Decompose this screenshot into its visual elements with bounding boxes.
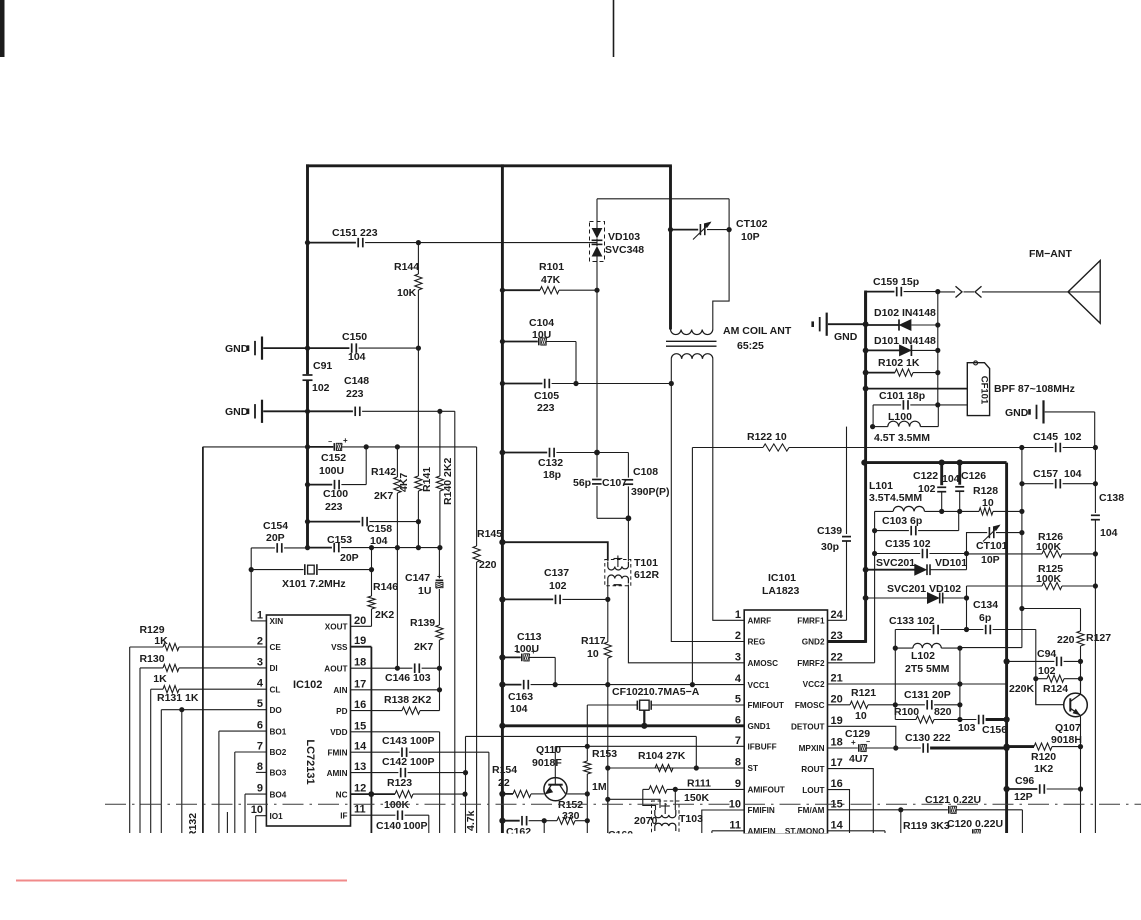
wire main bus left vertical — [306, 164, 309, 374]
trimmer capacitor CT101 10P — [967, 533, 988, 554]
svg-text:1U: 1U — [418, 585, 431, 597]
node CT102 left — [668, 227, 673, 232]
resistor R142 2K7 — [394, 477, 401, 493]
svg-text:C91: C91 — [313, 360, 332, 372]
svg-text:AMOSC: AMOSC — [748, 659, 779, 668]
capacitor C145 102 — [1022, 447, 1054, 449]
svg-text:4K7: 4K7 — [398, 473, 410, 492]
svg-text:T103: T103 — [679, 813, 703, 825]
ground GND (C150 row) — [247, 345, 250, 351]
svg-text:3: 3 — [257, 656, 263, 668]
svg-text:R104 27K: R104 27K — [638, 750, 686, 762]
svg-text:R131 1K: R131 1K — [157, 692, 199, 704]
svg-text:1K: 1K — [154, 635, 168, 647]
svg-text:7: 7 — [735, 735, 741, 747]
node C152/R142 junction — [395, 444, 400, 449]
svg-text:C163: C163 — [508, 691, 533, 703]
svg-text:10: 10 — [855, 710, 867, 722]
svg-text:5: 5 — [257, 698, 263, 710]
svg-text:IC101: IC101 — [768, 572, 796, 584]
ground GND (right) — [1028, 409, 1031, 415]
svg-text:AMIFOUT: AMIFOUT — [748, 786, 785, 795]
capacitor C146 103 (AOUT) — [351, 667, 413, 669]
svg-text:GND2: GND2 — [802, 638, 825, 647]
resistor R104 27K — [655, 764, 673, 771]
node R101 right — [594, 288, 599, 293]
wire C134 to R124 — [1035, 630, 1037, 705]
node C163/C113 junction — [553, 682, 558, 687]
svg-text:14: 14 — [831, 819, 844, 831]
svg-text:100K: 100K — [1036, 573, 1062, 585]
wire FMIFIN — [702, 810, 744, 833]
capacitor C121 0.22U electrolytic (FM/AM) — [828, 809, 948, 811]
wire ROUT — [828, 769, 874, 833]
svg-text:C105: C105 — [534, 390, 559, 402]
svg-text:IO1: IO1 — [270, 812, 284, 821]
svg-text:R139: R139 — [410, 617, 435, 629]
svg-text:AM COIL ANT: AM COIL ANT — [723, 325, 792, 337]
svg-text:C120 0.22U: C120 0.22U — [947, 818, 1003, 830]
svg-text:FMIN: FMIN — [327, 748, 347, 757]
svg-text:CF102: CF102 — [612, 686, 644, 698]
wire BO3 stub — [256, 771, 267, 773]
node L101/C126/C103 — [957, 509, 962, 514]
svg-text:C94: C94 — [1037, 648, 1056, 660]
node GND1 left — [499, 723, 505, 729]
svg-text:CT101: CT101 — [976, 540, 1008, 552]
wire to T103 primary left — [608, 799, 660, 808]
wire IO1 — [256, 815, 267, 817]
node L100 left — [870, 424, 875, 429]
node C131 right — [957, 702, 962, 707]
svg-text:22: 22 — [498, 777, 510, 789]
wire FMRF1 link to C139 — [828, 619, 847, 621]
svg-text:4: 4 — [257, 678, 264, 690]
svg-text:C159 15p: C159 15p — [873, 276, 919, 288]
svg-text:C139: C139 — [817, 525, 842, 537]
svg-text:104: 104 — [370, 535, 388, 547]
svg-text:R153: R153 — [592, 748, 617, 760]
ground GND (FM) — [811, 321, 814, 327]
svg-text:R145: R145 — [477, 528, 502, 540]
transformer T101 612R — [605, 560, 631, 586]
resistor R144 10K — [417, 243, 419, 274]
node crystal/R146 top — [369, 545, 374, 550]
wire R132 branch — [181, 710, 183, 833]
svg-text:R111: R111 — [687, 778, 711, 790]
node VCC2/L102-right — [957, 681, 962, 686]
node C137 right / T101 / R117 — [605, 597, 610, 602]
svg-text:220K: 220K — [1009, 683, 1035, 695]
svg-text:GND1: GND1 — [748, 722, 771, 731]
svg-text:AMRF: AMRF — [748, 617, 772, 626]
svg-text:2070: 2070 — [634, 815, 658, 827]
svg-text:C142 100P: C142 100P — [382, 756, 435, 768]
svg-text:10P: 10P — [981, 554, 1000, 566]
capacitor C143 100P (FMIN) — [351, 751, 400, 753]
node C130 bus — [1004, 745, 1010, 751]
svg-text:18: 18 — [831, 737, 843, 749]
svg-text:13: 13 — [354, 761, 366, 773]
node L101/C122 — [939, 509, 944, 514]
ground GND (C148 row) — [247, 409, 250, 415]
svg-text:LC72131: LC72131 — [304, 739, 316, 784]
wire VD103 top link — [597, 198, 729, 200]
wire ST/MONO — [828, 830, 886, 832]
node IFBUFF/R153 — [585, 744, 590, 749]
resistor R138 2K2 (PD) — [351, 710, 403, 712]
svg-text:GND: GND — [1005, 407, 1029, 419]
wire central bus vertical — [501, 164, 504, 833]
svg-text:9: 9 — [735, 778, 741, 790]
svg-text:R123: R123 — [387, 777, 412, 789]
node CT101 right — [1019, 530, 1024, 535]
resistor R154 22 — [499, 791, 505, 797]
wire BO2 — [235, 751, 267, 753]
wire crystal right leg / R146 — [371, 548, 373, 596]
svg-text:−: − — [866, 739, 870, 746]
svg-text:330: 330 — [562, 810, 580, 822]
svg-text:R119 3K3: R119 3K3 — [903, 820, 950, 832]
wire CT102 right leg — [713, 199, 729, 330]
node ST/IF-link — [694, 765, 699, 770]
wire XOUT lead — [351, 625, 372, 627]
svg-text:12: 12 — [354, 783, 366, 795]
svg-text:C126: C126 — [961, 470, 986, 482]
svg-text:R120: R120 — [1031, 751, 1056, 763]
svg-text:104: 104 — [1100, 527, 1118, 539]
svg-text:R117: R117 — [581, 635, 606, 647]
capacitor C132 18p — [502, 452, 547, 454]
capacitor C158 104 — [308, 521, 361, 523]
node VCC1 row / R117 — [605, 682, 610, 687]
svg-text:VDD: VDD — [330, 728, 347, 737]
svg-text:FMOSC: FMOSC — [795, 701, 825, 710]
wire IF buffer link row — [466, 735, 697, 737]
node C157 right — [1093, 481, 1098, 486]
capacitor C103 6p — [874, 511, 876, 662]
svg-text:C132: C132 — [538, 457, 563, 469]
svg-text:10P: 10P — [741, 231, 760, 243]
svg-text:104: 104 — [942, 473, 960, 485]
svg-text:BO3: BO3 — [270, 769, 287, 778]
node R152 right — [585, 818, 590, 823]
wire AM coil secondary right leg to AMRF — [713, 359, 744, 620]
resistor R126 100K — [967, 553, 1043, 555]
wire stub x227 — [226, 812, 228, 833]
wire DO row — [161, 709, 266, 711]
svg-text:10U: 10U — [532, 329, 551, 341]
filter CF102 10.7MA5-A — [587, 704, 637, 706]
svg-text:+: + — [851, 738, 856, 747]
node R120 right — [1078, 744, 1083, 749]
svg-text:C103 6p: C103 6p — [882, 515, 922, 527]
svg-text:220: 220 — [1057, 634, 1075, 646]
svg-text:22: 22 — [831, 651, 843, 663]
wire FMRF2 link — [828, 662, 875, 664]
svg-text:C157: C157 — [1033, 468, 1058, 480]
resistor R139 2K7 vertical — [436, 625, 443, 640]
capacitor C120 0.22U electrolytic — [972, 829, 974, 837]
capacitor C100 223 — [365, 447, 367, 485]
wire AMOSC branch — [627, 518, 629, 561]
svg-text:9018H: 9018H — [1051, 734, 1082, 746]
node R128 right — [1019, 509, 1024, 514]
node C94 right — [1078, 659, 1083, 664]
svg-text:10: 10 — [587, 648, 599, 660]
svg-text:C147: C147 — [405, 572, 430, 584]
svg-text:10: 10 — [251, 804, 263, 816]
svg-text:4: 4 — [735, 673, 742, 685]
resistor R101 47K — [502, 289, 540, 291]
node ST/x608 — [605, 765, 610, 770]
svg-text:X101 7.2MHz: X101 7.2MHz — [282, 578, 346, 590]
svg-text:L100: L100 — [888, 411, 912, 423]
svg-text:+: + — [531, 647, 536, 656]
svg-text:30p: 30p — [821, 541, 839, 553]
svg-text:C113: C113 — [517, 631, 542, 643]
capacitor C108 390P(P) — [597, 452, 628, 454]
antenna FM-ANT — [1068, 261, 1100, 324]
filter CF101 BPF 87-108MHz — [967, 363, 989, 416]
node C158 / left bus — [305, 519, 310, 524]
svg-text:12P: 12P — [1014, 791, 1033, 803]
svg-text:ROUT: ROUT — [801, 765, 824, 774]
wire C159 corner — [864, 292, 867, 325]
node antenna node — [935, 289, 940, 294]
wire LOUT — [828, 790, 850, 833]
svg-text:20P: 20P — [266, 532, 285, 544]
wire bus right vertical — [1005, 463, 1008, 833]
resistor R111 150K — [643, 789, 656, 810]
resistor R102 1K — [866, 372, 895, 374]
svg-text:BO4: BO4 — [270, 790, 287, 799]
node CT102 right — [727, 227, 732, 232]
wire C137 top row — [502, 542, 607, 561]
svg-text:L101: L101 — [869, 480, 893, 492]
wire IC102 ground bus — [202, 447, 204, 833]
diode VD102 SVC201 varactor — [863, 595, 869, 601]
svg-text:VCC1: VCC1 — [748, 681, 770, 690]
svg-text:XIN: XIN — [270, 617, 284, 626]
svg-text:C154: C154 — [263, 520, 288, 532]
resistor R153 1M — [586, 746, 588, 761]
svg-text:16: 16 — [354, 699, 366, 711]
svg-text:9018F: 9018F — [532, 757, 562, 769]
capacitor C104 10U electrolytic — [502, 341, 537, 343]
svg-text:104: 104 — [510, 703, 528, 715]
IC IC101 LA1823 — [744, 610, 827, 834]
wire ST row — [608, 767, 744, 769]
inductor L102 2T5 5MM — [894, 630, 896, 720]
capacitor C96 12P — [1004, 786, 1010, 792]
svg-text:Q110: Q110 — [536, 744, 561, 756]
capacitor C133 102 — [895, 629, 931, 631]
svg-text:T101: T101 — [634, 557, 658, 569]
wire AIN row — [351, 689, 440, 691]
svg-text:4.7k: 4.7k — [465, 810, 477, 831]
pink underline — [16, 880, 347, 882]
svg-text:4.5T 3.5MM: 4.5T 3.5MM — [874, 432, 930, 444]
svg-text:C122: C122 — [913, 470, 938, 482]
wire C101 left leg — [872, 405, 874, 427]
wire R127 jog — [1022, 608, 1081, 610]
svg-text:20P: 20P — [340, 552, 359, 564]
node R140 bottom — [437, 545, 442, 550]
wire L102 right vertical — [959, 648, 961, 719]
svg-text:CL: CL — [270, 685, 281, 694]
svg-text:150K: 150K — [684, 792, 710, 804]
svg-text:21: 21 — [831, 673, 843, 685]
resistor R146 2K2 — [368, 596, 375, 609]
transformer T103 — [652, 801, 680, 841]
svg-text:IFBUFF: IFBUFF — [748, 743, 777, 752]
svg-text:C107: C107 — [602, 477, 627, 489]
node DO junction — [179, 707, 184, 712]
node C152/C100 loop junction — [364, 444, 369, 449]
svg-text:104: 104 — [1064, 468, 1082, 480]
node bus left — [861, 460, 867, 466]
wire FM tuner thick bus — [864, 461, 1006, 464]
svg-text:220: 220 — [479, 559, 497, 571]
wire main bus left vertical lower — [306, 380, 309, 548]
svg-text:XOUT: XOUT — [325, 623, 348, 632]
node C105/C104 junction — [573, 381, 578, 386]
inductor L100 4.5T 3.5MM — [873, 426, 888, 428]
capacitor C139 30p link — [846, 427, 848, 534]
svg-text:SVC201: SVC201 — [876, 557, 915, 569]
svg-text:CF101: CF101 — [979, 376, 990, 405]
svg-text:2: 2 — [257, 636, 263, 648]
capacitor C151 223 — [308, 242, 356, 244]
wire AM coil feed vertical — [669, 166, 672, 330]
node R102 right — [935, 370, 940, 375]
fold dash-dot line — [105, 803, 1141, 805]
wire VDD — [351, 731, 440, 733]
svg-text:CE: CE — [270, 643, 282, 652]
wire GND1 thick row — [502, 724, 744, 727]
wire C145 branch vertical — [1021, 448, 1023, 648]
node C135/CT101 — [964, 551, 969, 556]
svg-text:C138: C138 — [1099, 492, 1124, 504]
svg-text:SVC348: SVC348 — [605, 244, 644, 256]
capacitor C154 20P — [251, 547, 275, 549]
node C132/C107 junction — [594, 450, 600, 456]
node C133 right / C134 — [964, 627, 969, 632]
node crystal left — [249, 567, 254, 572]
node R126 right — [1093, 551, 1098, 556]
svg-text:DETOUT: DETOUT — [791, 723, 825, 732]
svg-text:IC102: IC102 — [293, 679, 322, 691]
capacitor C91 — [303, 374, 313, 376]
svg-text:VCC2: VCC2 — [803, 680, 825, 689]
node AMIN right — [463, 770, 468, 775]
svg-text:FM−ANT: FM−ANT — [1029, 248, 1072, 260]
svg-text:−: − — [516, 650, 520, 657]
svg-text:16: 16 — [831, 778, 843, 790]
svg-text:BPF 87~108MHz: BPF 87~108MHz — [994, 383, 1075, 395]
node R123 right — [462, 792, 467, 797]
svg-text:C96: C96 — [1015, 775, 1034, 787]
svg-text:C148: C148 — [344, 375, 369, 387]
svg-text:VD103: VD103 — [608, 231, 640, 243]
node GND/D102 — [863, 321, 869, 327]
resistor R152 330 — [542, 818, 547, 823]
node C137 top corner — [499, 539, 505, 545]
svg-text:R146: R146 — [373, 581, 398, 593]
node R122/C145 junction — [1019, 445, 1024, 450]
svg-text:R100: R100 — [894, 706, 919, 718]
node R121 right — [893, 702, 898, 707]
svg-text:2K2: 2K2 — [375, 609, 394, 621]
svg-text:C101 18p: C101 18p — [879, 390, 925, 402]
node C101 right / CF101 — [935, 402, 940, 407]
node C156 bus — [1004, 716, 1010, 722]
svg-text:17: 17 — [831, 757, 843, 769]
wire VD102 to R125 — [966, 586, 968, 598]
wire Q107 emitter leg — [1080, 747, 1082, 833]
node C150 row / left bus — [305, 346, 310, 351]
resistor R123 100K (NC) — [351, 793, 396, 795]
wire C153 row to R142/R140 — [372, 547, 440, 549]
trimmer capacitor CT102 10P — [671, 229, 699, 231]
svg-text:2K7: 2K7 — [414, 641, 433, 653]
svg-text:18p: 18p — [543, 469, 561, 481]
svg-text:R101: R101 — [539, 261, 564, 273]
svg-text:100U: 100U — [319, 465, 344, 477]
node C151 left — [305, 240, 310, 245]
resistor R131 1K (CL) — [151, 688, 163, 690]
wire antenna node vertical — [937, 292, 939, 405]
capacitor C159 15p — [866, 291, 895, 293]
node AOUT/R139 bottom — [437, 666, 442, 671]
svg-text:10: 10 — [982, 497, 994, 509]
capacitor C163 104 — [499, 682, 505, 688]
capacitor C105 223 — [502, 383, 542, 385]
node C148/R140 junction — [437, 409, 442, 414]
svg-text:2K7: 2K7 — [374, 490, 393, 502]
svg-text:100K: 100K — [1036, 541, 1062, 553]
svg-text:NC: NC — [336, 790, 348, 799]
svg-text:7: 7 — [257, 741, 263, 753]
svg-text:102: 102 — [1064, 431, 1082, 443]
svg-text:15: 15 — [354, 720, 366, 732]
svg-text:C131 20P: C131 20P — [904, 689, 951, 701]
wire VD102 to C133 — [966, 598, 968, 630]
svg-text:6p: 6p — [979, 612, 991, 624]
svg-text:R122 10: R122 10 — [747, 431, 787, 443]
svg-text:BO1: BO1 — [270, 727, 287, 736]
wire C145-branch link to L102 — [960, 647, 1022, 649]
capacitor C94 102 — [1004, 658, 1010, 664]
node R141 bottom — [416, 545, 421, 550]
wire C160 branch — [607, 799, 609, 833]
resistor R120 1K2 — [1004, 744, 1010, 750]
resistor R128 10 — [979, 508, 993, 515]
svg-text:10: 10 — [729, 799, 741, 811]
crystal X101 7.2MHz — [251, 569, 303, 571]
svg-text:FMIFOUT: FMIFOUT — [748, 701, 784, 710]
resistor R127 220 vertical — [1080, 609, 1082, 632]
resistor R130 1K (DI) — [140, 667, 163, 669]
node VD102 right — [964, 595, 969, 600]
node D102 right — [935, 322, 940, 327]
svg-text:103: 103 — [958, 722, 976, 734]
capacitor C157 104 — [1022, 483, 1053, 485]
svg-text:C134: C134 — [973, 599, 998, 611]
capacitor C126 (104) — [958, 463, 961, 485]
svg-text:223: 223 — [346, 388, 364, 400]
